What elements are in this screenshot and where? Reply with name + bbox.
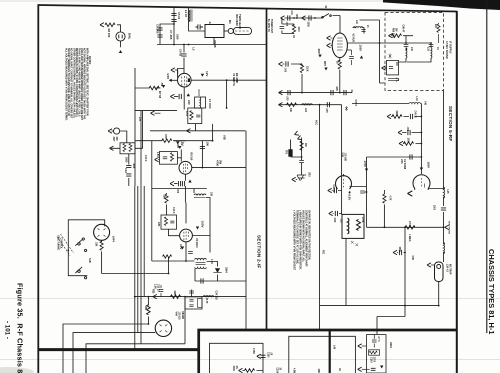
resistor R35: [392, 34, 402, 38]
osc coil box T1 upper: [195, 97, 206, 108]
svg-text:.005: .005: [285, 22, 287, 27]
wire agc bus y104: [279, 104, 342, 106]
tube V3 6AF4 osc: [180, 229, 193, 242]
voltage arrow 105V: [196, 227, 199, 230]
terminal arrow cath: [279, 90, 283, 94]
terminal arrow test point: [445, 225, 449, 229]
svg-text:THAN 1 IN MF, 1 AND ABOVE IN M: THAN 1 IN MF, 1 AND ABOVE IN MMF UNLESS …: [78, 48, 81, 117]
wire box drop: [213, 38, 215, 45]
wire top bus: [157, 44, 266, 46]
asterisk marks z4: [351, 241, 358, 246]
svg-text:C6 .005: C6 .005: [156, 24, 160, 34]
wire cap drop: [128, 154, 130, 187]
svg-text:1N64: 1N64: [389, 342, 392, 348]
svg-text:V2B: V2B: [341, 153, 344, 158]
wire dome feed: [420, 157, 422, 174]
scan black corner top-right: [383, 0, 500, 10]
wire cathode cap arm: [174, 96, 178, 98]
mech link dashes: [57, 234, 74, 256]
resistor R40: [392, 115, 402, 119]
svg-text:TP1: TP1: [285, 150, 287, 155]
cable arrow: [388, 78, 399, 82]
svg-text:ALL VOLTAGES MEASURED WITH VTV: ALL VOLTAGES MEASURED WITH VTVM FROM SOC…: [65, 48, 68, 121]
capacitor C22: [159, 290, 164, 292]
svg-text:B+ 135V TO: B+ 135V TO: [267, 19, 269, 32]
wire coil stub tube top: [353, 28, 365, 34]
ant coil box T2: [120, 143, 135, 154]
svg-text:DIAL: DIAL: [128, 33, 132, 40]
asterisk: [389, 54, 392, 59]
wire cap stub c26: [365, 191, 367, 193]
pilot lamp wire: [117, 25, 121, 32]
svg-text:C12: C12: [124, 168, 128, 173]
terminal arrow mid: [302, 16, 306, 20]
terminal arrow sc1: [328, 188, 332, 192]
tube V2B 6U8 dome: [336, 176, 352, 189]
svg-text:.5V: .5V: [160, 82, 164, 87]
switch frame loop: [68, 220, 104, 276]
voltage arrow .5V: [162, 85, 165, 88]
wire if bus: [135, 296, 246, 298]
wire grid bus: [135, 124, 213, 141]
svg-text:45.75: 45.75: [205, 298, 208, 304]
capacitor C1: [171, 13, 176, 15]
svg-text:146: 146: [424, 101, 427, 106]
capacitor C36: [344, 90, 346, 95]
svg-text:✱-6.6V: ✱-6.6V: [348, 191, 352, 200]
svg-text:SECTION 2-IF: SECTION 2-IF: [257, 235, 262, 268]
tube V1 6BQ7: [178, 73, 192, 87]
svg-text:V2A: V2A: [400, 159, 403, 164]
svg-text:L36 4.5: L36 4.5: [446, 264, 449, 273]
svg-text:RF AMP: RF AMP: [235, 73, 239, 83]
resistor R30: [292, 25, 295, 34]
wire branch left: [160, 24, 174, 45]
long vertical feeder E: [143, 186, 145, 297]
wire bottom bus osc: [152, 260, 195, 262]
svg-text:C24 120: C24 120: [215, 291, 218, 301]
capacitor C2: [171, 19, 176, 21]
capacitor C10 cathode: [179, 94, 181, 99]
voltage arrow z6: [380, 366, 383, 369]
svg-text:.005: .005: [176, 189, 178, 194]
svg-text:66V: 66V: [323, 61, 327, 66]
capacitor C14 plate: [200, 146, 205, 148]
wire dome V8B arm: [344, 174, 367, 187]
svg-text:1000: 1000: [176, 34, 179, 40]
svg-text:R9 100: R9 100: [190, 153, 193, 161]
wire coil feed: [189, 7, 206, 31]
resistor R50: [383, 194, 386, 203]
wire osc box link: [135, 68, 246, 186]
speaker jack box M2: [387, 60, 399, 75]
scan streak top: [0, 0, 385, 2]
voltage arrow 4.5V: [169, 79, 172, 82]
capacitor C31: [309, 15, 311, 20]
ground arrow: [119, 50, 122, 53]
svg-text:165V: 165V: [426, 162, 430, 169]
svg-text:10V: 10V: [179, 244, 183, 249]
svg-text:220K: 220K: [307, 22, 309, 28]
diode CR1: [213, 269, 221, 273]
capacitor C41: [361, 30, 365, 32]
wire ant stub: [112, 130, 115, 132]
junction: [226, 79, 228, 81]
svg-text:6AF4: 6AF4: [112, 236, 115, 243]
trap cylinder Z5: [435, 262, 444, 282]
junction: [173, 44, 175, 46]
svg-text:.06V: .06V: [317, 48, 321, 54]
terminal arrow trap: [427, 263, 431, 267]
svg-text:V4A: V4A: [175, 312, 178, 317]
coil L9: [203, 295, 214, 298]
capacitor C3: [157, 28, 162, 30]
terminal arrow boost: [389, 34, 393, 38]
svg-text:1/2 6J6: 1/2 6J6: [178, 312, 181, 321]
terminal arrow agc: [279, 103, 283, 107]
svg-text:TWIN LEAD: TWIN LEAD: [238, 14, 242, 29]
resistor R32: [287, 103, 297, 107]
capacitor C60: [260, 355, 265, 357]
fold artifact line lower: [0, 359, 500, 361]
capacitor C23: [189, 291, 194, 293]
capacitor C19: [201, 278, 203, 283]
junction: [148, 323, 150, 325]
svg-text:C22 10: C22 10: [157, 284, 159, 292]
svg-text:C160: C160: [267, 352, 269, 358]
coil L14: [405, 48, 408, 59]
svg-text:180: 180: [210, 192, 213, 197]
wire plate right: [192, 228, 210, 253]
test jack block: [289, 150, 293, 157]
terminal arrow s2: [398, 130, 402, 134]
svg-text:● VOLTAGES MEASURED WITH VTVM: ● VOLTAGES MEASURED WITH VTVM FROM SOCKE…: [293, 210, 296, 271]
svg-text:300: 300: [115, 137, 118, 142]
wire plate feed: [183, 45, 185, 74]
svg-text:3000: 3000: [125, 157, 128, 163]
wire if2 inner loop: [210, 343, 264, 373]
voltage arrow 10V: [181, 247, 184, 250]
capacitor C48: [334, 188, 336, 193]
wire feed vertical: [173, 7, 175, 44]
svg-text:.005: .005: [325, 108, 327, 113]
capacitor C47: [410, 154, 412, 159]
asterisk marks: [345, 106, 348, 111]
svg-text:10K: 10K: [289, 108, 291, 113]
svg-text:1N64: 1N64: [225, 267, 228, 273]
svg-text:V3 6AF4: V3 6AF4: [195, 238, 198, 248]
resistor R28 360: [300, 141, 303, 150]
resistor R52 470K: [405, 226, 415, 230]
svg-text:22K: 22K: [173, 291, 176, 296]
voltage arrow 165V: [420, 168, 423, 171]
svg-text:150K: 150K: [398, 247, 400, 253]
terminal arrow b+: [281, 16, 285, 20]
coil L18: [443, 187, 446, 198]
svg-text:OTHER CONTROLS NORMAL. VALUES: OTHER CONTROLS NORMAL. VALUES SHOWN ±20%…: [72, 48, 75, 119]
svg-text:100K: 100K: [407, 138, 409, 144]
wire screen stubs: [332, 191, 342, 214]
svg-text:TEST POINT: TEST POINT: [448, 221, 450, 235]
osc box lower R: [188, 108, 202, 124]
resistor R31: [338, 60, 341, 69]
svg-text:C13 2: C13 2: [144, 155, 147, 162]
junction: [185, 260, 187, 262]
svg-text:3W: 3W: [219, 160, 223, 164]
wire res drop: [147, 297, 149, 324]
svg-text:15K: 15K: [163, 195, 166, 200]
terminal arrow mixer grid: [187, 129, 191, 133]
terminal arrow gnd lead: [110, 146, 114, 150]
wire transformer secondary: [195, 262, 246, 282]
svg-text:C9 82: C9 82: [179, 49, 183, 57]
svg-text:47K: 47K: [157, 222, 160, 227]
terminal arrow z6 top: [358, 344, 362, 348]
junction: [293, 17, 295, 19]
wire right arm: [191, 79, 266, 81]
terminal arrow grid: [171, 68, 175, 72]
svg-text:120K: 120K: [306, 66, 308, 72]
bottom section left border: [197, 329, 200, 373]
svg-text:100K: 100K: [232, 366, 234, 372]
wire tube drop: [101, 240, 103, 273]
svg-text:R64: R64: [295, 15, 298, 20]
svg-text:C45 10: C45 10: [414, 111, 417, 119]
grid box Z1: [159, 152, 177, 165]
svg-text:15K: 15K: [95, 242, 98, 247]
interlock switch S2: [322, 14, 330, 19]
resistor R17: [163, 255, 172, 258]
svg-text:470K: 470K: [408, 221, 411, 227]
switch arm 1: [75, 240, 82, 246]
voltage arrow 5V: [176, 142, 179, 145]
capacitor C46: [408, 130, 410, 135]
svg-text:470: 470: [164, 134, 168, 139]
terminal arrow pin3: [327, 43, 331, 47]
svg-text:V3B: V3B: [223, 135, 226, 140]
terminal arrow cathode: [170, 94, 174, 98]
svg-text:.005: .005: [284, 68, 286, 73]
long vertical feeder D: [151, 141, 153, 261]
terminal arrow dome: [408, 191, 413, 196]
svg-text:● MEASURED IN SERIES WITH 470K: ● MEASURED IN SERIES WITH 470K OHM RESIS…: [299, 210, 302, 270]
wire sub arm: [282, 18, 294, 38]
wire res in: [393, 35, 414, 37]
svg-text:L16: L16: [415, 97, 418, 102]
svg-text:L4 18: L4 18: [184, 10, 188, 17]
svg-text:C90 47: C90 47: [402, 25, 405, 33]
resistor R60 100K: [245, 369, 255, 373]
coil L1: [189, 10, 190, 22]
terminal arrow s1: [387, 114, 391, 118]
tube V6 6U8 converter: [332, 33, 347, 58]
svg-text:4.5 MC SOUND: 4.5 MC SOUND: [445, 41, 448, 59]
wire left arm: [170, 79, 178, 81]
capacitor C29: [299, 161, 304, 163]
wire box out: [224, 30, 229, 32]
capacitor C52 150K stub: [399, 250, 401, 255]
svg-text:1/2 6U8: 1/2 6U8: [344, 153, 347, 162]
voltage arrow 170V: [365, 169, 368, 172]
voltage arrow 12V: [201, 74, 204, 77]
pilot lamp ground stub: [120, 41, 122, 47]
svg-text:10K: 10K: [144, 306, 147, 311]
wire screen drop: [226, 80, 228, 108]
terminal arrow pilot: [100, 23, 104, 27]
svg-text:Figure 35. R-F Chassis 81, Sc: Figure 35. R-F Chassis 81, Sch: [16, 283, 25, 373]
svg-text:TERMINALS TO CHASSIS. SET AT 1: TERMINALS TO CHASSIS. SET AT 117V AC LIN…: [296, 210, 299, 265]
coil T3 osc: [194, 194, 206, 195]
svg-text:COILS AND TRANSFORMER WINDINGS: COILS AND TRANSFORMER WINDINGS UNDER 1 O…: [80, 48, 83, 121]
svg-text:IF SUPPLY: IF SUPPLY: [448, 41, 451, 54]
wire tube bottom: [339, 58, 341, 93]
svg-text:C? 6: C? 6: [377, 337, 379, 343]
resistor R61 box: [369, 350, 380, 355]
svg-text:470K: 470K: [361, 217, 364, 223]
svg-text:S1B: S1B: [88, 258, 91, 263]
capacitor C34: [288, 90, 290, 95]
wire z4 drop: [345, 239, 347, 306]
wire col 2: [407, 43, 431, 62]
terminal arrow pin2: [327, 36, 331, 40]
sound det box Z6: [367, 335, 387, 373]
svg-text:MIXER: MIXER: [181, 312, 184, 320]
resistor R1 pilot: [105, 23, 115, 27]
wire cath bottom: [367, 226, 444, 228]
capacitor C37: [327, 102, 329, 107]
svg-text:1500: 1500: [433, 205, 435, 211]
capacitor C12: [126, 165, 131, 167]
svg-text:RESISTANCE IN OHMS, K=1000. CA: RESISTANCE IN OHMS, K=1000. CAPACITANCE …: [75, 48, 78, 117]
capacitor C62: [371, 368, 376, 370]
wire det column: [301, 138, 303, 176]
double arrow det in: [294, 131, 299, 137]
long vertical feeder C: [140, 111, 142, 344]
wire sound if feed row: [352, 103, 421, 105]
tube V4 fine tuning: [94, 224, 110, 240]
terminal arrow c60: [257, 354, 261, 358]
svg-text:1.5V: 1.5V: [156, 152, 158, 157]
cable plug P1: [228, 28, 233, 33]
svg-text:.005: .005: [335, 86, 338, 91]
svg-text:CR2: CR2: [308, 172, 310, 177]
svg-text:4.5V: 4.5V: [166, 73, 170, 79]
wire cath box left: [366, 157, 368, 227]
trap box Z3: [185, 297, 202, 309]
junction: [173, 23, 175, 25]
svg-text:NOTES:: NOTES:: [88, 56, 90, 65]
svg-text:102V: 102V: [359, 45, 363, 52]
junction: [301, 156, 303, 158]
svg-text:CHASSIS TYPES 81, H-1: CHASSIS TYPES 81, H-1: [487, 249, 496, 334]
resistor R19: [100, 241, 103, 250]
svg-text:12V: 12V: [205, 71, 209, 76]
frame left border: [37, 5, 39, 373]
svg-text:CONTROLS AT NORMAL. ALIGNMENT: CONTROLS AT NORMAL. ALIGNMENT PER CHART: [305, 210, 308, 267]
svg-text:ANT: ANT: [112, 137, 115, 142]
capacitor C42: [404, 45, 409, 47]
osc feedback box Z2: [161, 215, 177, 229]
resistor R7 agc: [149, 86, 159, 90]
bottom-left scan shadow: [0, 367, 34, 373]
wire plate arm: [192, 141, 246, 168]
svg-text:SOCKET TERMINALS TO CHASSIS GN: SOCKET TERMINALS TO CHASSIS GND. LINE AT…: [67, 48, 70, 116]
wire osc box drop: [169, 229, 180, 236]
svg-text:NO SIGNAL INPUT. CONTRAST AT M: NO SIGNAL INPUT. CONTRAST AT MINIMUM, AL…: [70, 48, 73, 119]
capacitor C26: [360, 191, 365, 193]
wire agc return: [377, 227, 405, 334]
voltage arrow 66V: [324, 68, 327, 71]
svg-text:1.5K: 1.5K: [333, 218, 335, 223]
wire screen vertical: [341, 105, 343, 215]
wire trap column: [443, 91, 445, 263]
svg-text:C159: C159: [276, 368, 278, 373]
svg-text:C48 12: C48 12: [332, 185, 335, 193]
coil L19: [443, 242, 446, 253]
wire agc vertical: [319, 105, 321, 330]
voltage arrow cath: [187, 93, 190, 96]
wire gridbox arm: [158, 158, 181, 160]
svg-text:R25: R25: [152, 289, 155, 294]
svg-text:ON PAGE 96. SEE NOTES ON THIS: ON PAGE 96. SEE NOTES ON THIS SECTION.: [308, 210, 311, 261]
wire agc left: [135, 87, 161, 89]
wire osc top bus: [152, 189, 210, 228]
svg-text:170V: 170V: [363, 161, 367, 168]
resistor R23: [147, 305, 151, 315]
svg-text:220: 220: [187, 100, 191, 105]
wire grid loop: [178, 69, 185, 78]
svg-text:L7 OSC: L7 OSC: [208, 99, 212, 109]
main vertical bus A low: [134, 186, 136, 350]
svg-text:CONTROL: CONTROL: [60, 238, 62, 250]
switch contact circles: [78, 243, 80, 245]
terminal arrow if bus: [153, 294, 157, 298]
svg-text:R7 68: R7 68: [158, 91, 162, 99]
svg-text:C80: C80: [411, 256, 414, 261]
terminal arrow cath2: [170, 181, 174, 185]
wire trap drop: [184, 297, 186, 344]
junction: [384, 226, 386, 228]
svg-text:AGC: AGC: [315, 120, 318, 125]
dashed enclosure: [385, 13, 444, 91]
capacitor C9 plate: [181, 54, 186, 56]
wire tube feed: [180, 150, 182, 162]
terminal arrow cr3: [292, 177, 296, 181]
svg-text:V2 6U8: V2 6U8: [352, 34, 355, 43]
svg-text:2700: 2700: [373, 357, 375, 363]
wire cath bus y92: [279, 90, 353, 93]
coil L16: [409, 102, 420, 105]
coil L12: [302, 103, 313, 106]
frame top border: [38, 5, 458, 12]
svg-text:100: 100: [206, 142, 210, 147]
capacitor C33: [349, 57, 354, 59]
crystal diode CR3: [297, 175, 306, 180]
svg-text:.5V: .5V: [176, 144, 180, 149]
voltage arrow 5V osc: [178, 146, 181, 149]
terminal arrow gridbox: [155, 157, 159, 161]
switch arm 2: [75, 267, 82, 273]
terminal arrow jack: [382, 66, 386, 70]
wire b+ bus y18: [285, 16, 341, 34]
junction: [212, 140, 214, 142]
wire plate row y157: [367, 156, 422, 158]
wire cap stub 150k: [397, 252, 405, 254]
svg-text:C158: C158: [252, 348, 255, 354]
long vertical feeder B: [137, 186, 139, 333]
trap box Z4: [342, 214, 364, 238]
junction: [421, 116, 423, 118]
